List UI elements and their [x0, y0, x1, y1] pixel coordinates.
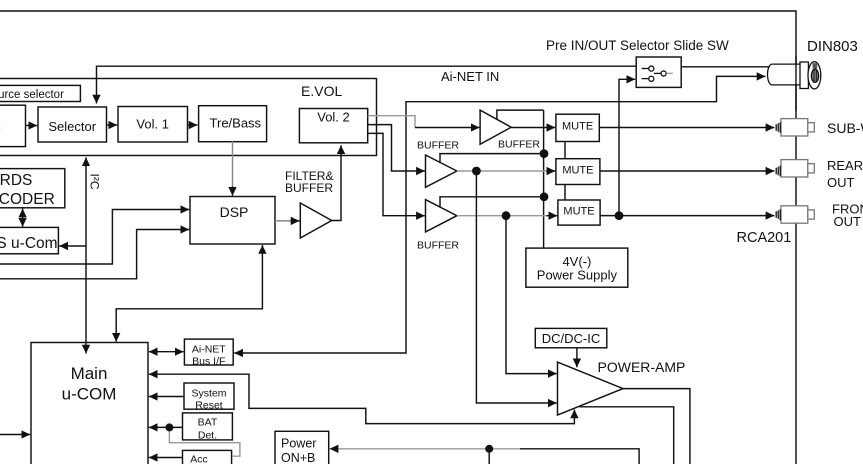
svg-text:RDS: RDS	[0, 172, 32, 189]
svg-text:Bus I/F: Bus I/F	[192, 355, 225, 367]
svg-text:Ai-NET IN: Ai-NET IN	[441, 69, 499, 84]
svg-text:POWER-AMP: POWER-AMP	[598, 359, 686, 375]
svg-text:ON+B: ON+B	[281, 451, 315, 464]
svg-text:BUFFER: BUFFER	[285, 181, 333, 195]
svg-text:BUFFER: BUFFER	[498, 139, 540, 151]
svg-text:Selector: Selector	[48, 119, 96, 134]
svg-text:C: C	[0, 119, 1, 134]
svg-text:RDS u-Com: RDS u-Com	[0, 235, 58, 252]
svg-text:System: System	[191, 387, 226, 399]
svg-text:BAT: BAT	[198, 416, 218, 428]
svg-text:DC/DC-IC: DC/DC-IC	[542, 331, 601, 346]
svg-text:DSP: DSP	[220, 204, 249, 220]
svg-text:E.VOL: E.VOL	[301, 83, 342, 99]
svg-text:MUTE: MUTE	[563, 206, 594, 218]
svg-text:DECODER: DECODER	[0, 191, 55, 208]
svg-text:OUT: OUT	[827, 175, 855, 190]
svg-text:Vol. 2: Vol. 2	[317, 110, 350, 125]
svg-text:Vol. 1: Vol. 1	[136, 117, 169, 132]
svg-text:Det.: Det.	[198, 429, 217, 441]
svg-text:Tre/Bass: Tre/Bass	[210, 116, 262, 131]
svg-text:u-COM: u-COM	[62, 385, 117, 404]
svg-text:Acc: Acc	[190, 454, 208, 464]
svg-text:RCA201: RCA201	[737, 230, 792, 246]
svg-text:Main: Main	[71, 364, 108, 383]
svg-text:SUB-WOOFER: SUB-WOOFER	[827, 120, 863, 136]
svg-text:BUFFER: BUFFER	[417, 140, 459, 152]
svg-text:MUTE: MUTE	[562, 121, 593, 133]
svg-text:OUT: OUT	[834, 214, 862, 229]
svg-text:Ai-NET: Ai-NET	[192, 343, 226, 355]
svg-text:Reset: Reset	[195, 399, 223, 411]
svg-text:MUTE: MUTE	[562, 165, 593, 177]
svg-text:Power Supply: Power Supply	[537, 267, 618, 282]
svg-text:DIN803: DIN803	[807, 38, 858, 55]
svg-text:BUFFER: BUFFER	[417, 240, 459, 252]
svg-text:I²C: I²C	[88, 174, 102, 190]
svg-text:Source selector: Source selector	[0, 89, 64, 101]
svg-text:REAR: REAR	[827, 158, 863, 173]
svg-text:Power: Power	[281, 437, 316, 451]
svg-text:Pre IN/OUT Selector Slide SW: Pre IN/OUT Selector Slide SW	[546, 38, 729, 53]
